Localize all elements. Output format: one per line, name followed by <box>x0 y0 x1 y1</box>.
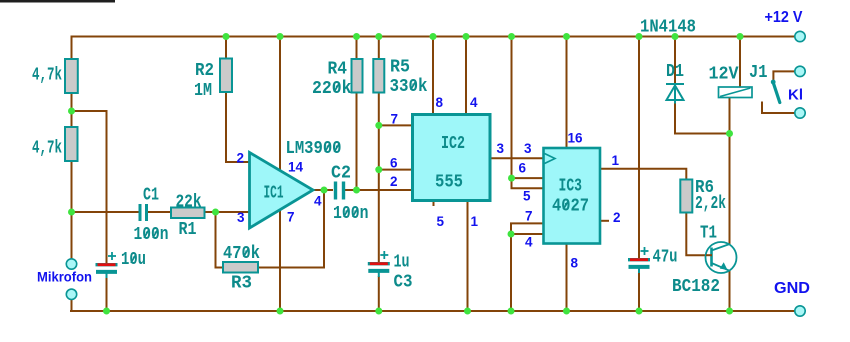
svg-text:C2: C2 <box>331 164 351 184</box>
junction node A divider tap <box>68 108 75 115</box>
wire D1 anode to relay node <box>675 102 730 134</box>
wire 47u to ground rail <box>638 273 640 312</box>
junction dots bottom rail <box>103 308 110 315</box>
wire relay top leg <box>739 36 741 88</box>
junction dots top rail <box>223 33 230 40</box>
svg-text:100n: 100n <box>134 225 169 245</box>
svg-text:J1: J1 <box>749 63 768 83</box>
svg-text:3: 3 <box>497 141 505 156</box>
wire relay contact to terminal K1 top <box>773 71 794 81</box>
wire 10u to ground rail <box>106 276 108 312</box>
svg-text:1u: 1u <box>394 253 410 273</box>
terminal microphone lower <box>66 289 76 299</box>
wire IC2 pin 8 stub <box>432 36 434 115</box>
svg-text:16: 16 <box>568 131 584 146</box>
wire IC2 pin 4 stub <box>465 36 467 115</box>
capacitor 47u electrolytic <box>628 258 650 261</box>
svg-text:IC3: IC3 <box>559 177 583 197</box>
junction op-amp output C2 R3 <box>321 187 328 194</box>
wire +12V to IC3 J/K inputs <box>512 36 545 188</box>
IC3 clock input chevron <box>545 154 556 164</box>
relay coil 12V <box>719 87 753 98</box>
svg-text:C1: C1 <box>143 186 159 206</box>
junction IC2 pin 7 on R5 net <box>375 122 382 129</box>
junction IC3 pin 6 tee <box>508 175 515 182</box>
resistor R3 470k <box>223 262 258 273</box>
resistor R1 22k <box>171 208 205 219</box>
wire IC2 pin 7 <box>379 124 413 126</box>
junction R1 to op-amp and R3 <box>212 209 219 216</box>
svg-text:2: 2 <box>613 210 621 225</box>
svg-text:4,7k: 4,7k <box>32 66 62 86</box>
wire R3 to C2 node <box>258 190 325 268</box>
junction microphone node <box>68 209 75 216</box>
svg-text:12V: 12V <box>709 65 739 85</box>
wire C1 to R1 <box>148 211 172 213</box>
svg-text:4,7k: 4,7k <box>32 139 62 159</box>
svg-text:R5: R5 <box>390 58 410 78</box>
wire R2 to op-amp pin 2 <box>226 91 250 162</box>
svg-text:220k: 220k <box>312 79 352 99</box>
svg-text:Mikrofon: Mikrofon <box>37 269 92 285</box>
wire node A tap to 10u <box>72 111 107 263</box>
wire IC3 pin 6 <box>512 177 545 179</box>
terminal K1 upper <box>795 66 805 76</box>
wire C3 to ground rail <box>378 276 380 312</box>
terminal GND <box>795 306 805 316</box>
capacitor 10u electrolytic <box>96 263 118 266</box>
svg-text:1N4148: 1N4148 <box>640 18 696 38</box>
svg-text:14: 14 <box>288 160 304 175</box>
wire relay contact bottom <box>762 102 795 114</box>
svg-text:6: 6 <box>519 161 527 176</box>
svg-text:22k: 22k <box>176 193 202 213</box>
capacitor C2 100n plates <box>336 182 344 200</box>
transistor Q1 T1 BC182 <box>706 242 737 273</box>
svg-text:+12 V: +12 V <box>765 9 803 26</box>
resistor R4 220k <box>352 59 363 93</box>
svg-text:5: 5 <box>437 214 445 229</box>
wire left branch from rail to R upper <box>71 36 73 61</box>
wire IC3 pin 16 stub <box>566 36 568 149</box>
svg-text:R2: R2 <box>195 61 214 81</box>
wire between 4,7k resistors <box>71 92 73 128</box>
wire C2 to IC2 pin 2 <box>344 189 413 191</box>
svg-text:4: 4 <box>525 235 533 250</box>
svg-text:555: 555 <box>435 173 463 193</box>
terminal microphone upper <box>66 259 76 269</box>
svg-text:100n: 100n <box>333 204 369 224</box>
junction R4 bottom on pin2 net <box>353 187 360 194</box>
wire microphone signal to C1 <box>70 211 139 213</box>
svg-text:C3: C3 <box>394 273 413 293</box>
svg-text:LM3900: LM3900 <box>286 139 342 159</box>
svg-text:3: 3 <box>237 210 245 225</box>
svg-text:7: 7 <box>391 112 399 127</box>
svg-text:8: 8 <box>571 256 579 271</box>
IC U2 IC2 555 body <box>413 115 491 201</box>
wire feedback down from node to R3 <box>216 212 225 268</box>
svg-text:1: 1 <box>471 214 479 229</box>
wire IC2 pin 5 stub <box>433 200 435 206</box>
svg-text:7: 7 <box>525 209 533 224</box>
switch contact K1 blade <box>773 83 780 103</box>
terminal K1 lower <box>795 108 805 118</box>
svg-text:GND: GND <box>774 280 810 297</box>
wire from lower 4,7k to microphone node <box>71 160 73 259</box>
wire IC2 pin 6 <box>379 169 413 171</box>
resistor R2 1M <box>220 59 232 93</box>
wire IC3 pin 7 to pin 4 <box>511 223 544 312</box>
svg-text:470k: 470k <box>223 244 260 264</box>
svg-text:1: 1 <box>612 153 620 168</box>
wire R4 top stub <box>356 36 358 60</box>
wire IC3 pin 8 to ground rail <box>566 243 568 312</box>
svg-text:IC1: IC1 <box>264 184 284 204</box>
svg-text:2: 2 <box>237 151 245 166</box>
wire R5 down to C3 <box>378 92 380 263</box>
svg-text:5: 5 <box>523 189 531 204</box>
wire GND bottom rail <box>70 310 795 312</box>
wire op-amp supply pin 14 to pin 7 vertical <box>279 36 281 311</box>
svg-text:6: 6 <box>390 156 398 171</box>
wire IC3 pin 1 to R6 <box>599 169 686 180</box>
resistor R6 2,2k <box>680 180 692 213</box>
svg-text:T1: T1 <box>700 224 717 244</box>
resistor 4,7k upper <box>65 59 78 93</box>
svg-text:4027: 4027 <box>552 197 589 217</box>
svg-text:Kl: Kl <box>788 87 803 104</box>
wire microphone to ground rail <box>71 299 73 312</box>
wire R1 to op-amp pin 3 <box>204 211 250 213</box>
svg-text:2,2k: 2,2k <box>695 194 726 214</box>
svg-text:BC182: BC182 <box>672 277 720 297</box>
svg-text:R3: R3 <box>231 274 252 294</box>
wire +12V top rail <box>72 36 796 38</box>
svg-text:3: 3 <box>524 141 532 156</box>
wire IC3 pin 4 <box>511 233 544 235</box>
junction D1 relay T1 collector node <box>726 130 733 137</box>
wire R6 to T1 base <box>686 212 711 255</box>
svg-text:7: 7 <box>287 210 295 225</box>
op-amp U1 IC1 LM3900 triangle <box>250 153 314 229</box>
wire IC3 pin 2 stub <box>599 220 609 222</box>
wire T1 base lead inside circle <box>706 254 712 256</box>
junction IC2 pin 6 on R5 net <box>375 166 382 173</box>
wire op-amp output to C2 <box>312 189 333 191</box>
wire relay bottom leg to T1 collector <box>729 97 731 245</box>
svg-text:R4: R4 <box>328 60 348 80</box>
svg-text:4: 4 <box>470 95 478 110</box>
diode D1 1N4148 <box>666 84 684 104</box>
wire R4 bottom to pin2 net <box>356 92 358 190</box>
resistor 4,7k lower <box>65 127 78 161</box>
svg-text:IC2: IC2 <box>441 134 465 154</box>
wire IC2 pin 3 to IC3 clock <box>489 157 544 159</box>
wire 47u branch from rail <box>638 36 640 259</box>
capacitor C3 1u electrolytic <box>368 262 390 265</box>
terminal +12V <box>795 31 805 41</box>
IC U3 IC3 4027 body <box>544 148 601 244</box>
wire R2 top stub <box>225 36 227 60</box>
svg-text:1M: 1M <box>194 81 212 101</box>
svg-text:2: 2 <box>390 174 398 189</box>
svg-text:4: 4 <box>314 194 322 209</box>
svg-text:R1: R1 <box>179 220 197 240</box>
wire IC2 pin 1 to ground rail <box>467 200 469 312</box>
svg-text:47u: 47u <box>653 248 678 268</box>
svg-text:330k: 330k <box>390 77 428 97</box>
junction IC3 pin 4 tee <box>508 231 515 238</box>
wire D1 branch from rail <box>674 36 676 84</box>
capacitor C1 100n plates <box>140 204 147 221</box>
svg-text:8: 8 <box>436 95 444 110</box>
svg-text:D1: D1 <box>666 62 684 82</box>
resistor R5 330k <box>373 59 384 93</box>
wire T1 emitter to ground rail <box>729 271 731 313</box>
wire R5 top stub <box>378 36 380 60</box>
